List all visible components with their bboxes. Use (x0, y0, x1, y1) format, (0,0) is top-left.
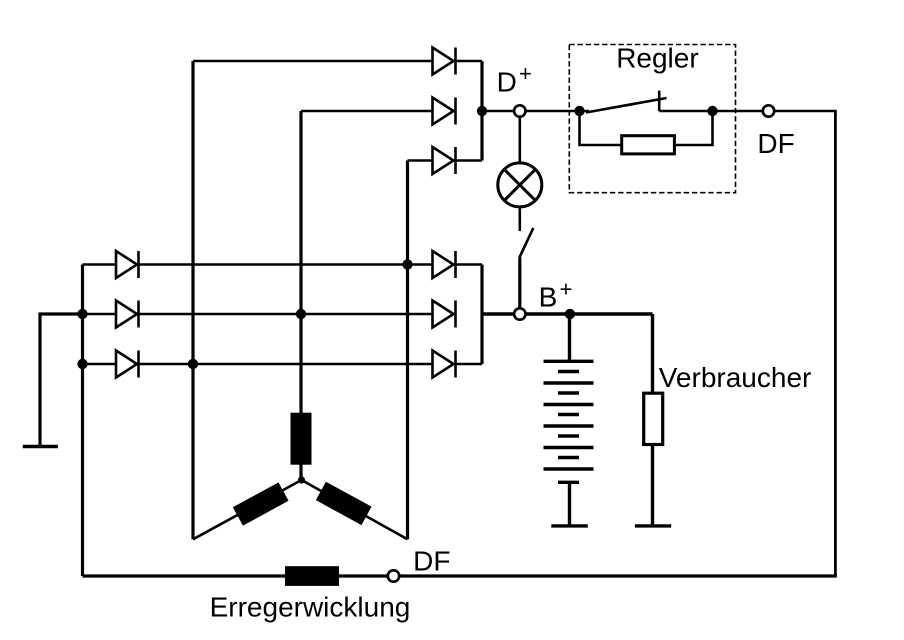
wire row 3 across (139, 363, 433, 366)
wire D3p output (456, 363, 483, 366)
svg-text:Erregerwicklung: Erregerwicklung (210, 592, 411, 623)
svg-text:+: + (519, 61, 532, 86)
wire load branch (651, 314, 654, 393)
node ground rail row 3 junction (77, 359, 87, 369)
wire regulator bypass left (580, 111, 622, 145)
stator winding leg V (299, 414, 302, 481)
regulator box dashed (569, 45, 735, 193)
diode D2p positive middle (433, 301, 456, 328)
wire top row 1 (193, 60, 433, 63)
wire row 1 across (139, 263, 433, 266)
wire D4 output (456, 60, 483, 63)
wire phase W vertical (406, 161, 409, 540)
wire top row 3 (408, 159, 433, 162)
wire ground branch (40, 314, 83, 447)
wire field bottom (83, 574, 837, 577)
battery (544, 314, 594, 526)
node phase W row 1 junction (402, 259, 412, 269)
node phase V row 2 junction (296, 309, 306, 319)
wire switch to B+ (518, 258, 521, 309)
wire lower row 2 (83, 313, 117, 316)
ground battery (551, 524, 588, 527)
diode D5 exciter middle (433, 98, 456, 125)
node regulator right junction (707, 106, 717, 116)
wire D6 output (456, 159, 483, 162)
ground (23, 445, 58, 448)
switch regulator blade (586, 98, 667, 113)
resistor regulator field resistor (622, 136, 675, 154)
switch regulator contact tick (658, 91, 661, 111)
diode D2 negative middle (116, 301, 139, 328)
terminal DF right (763, 105, 774, 116)
diode D6 exciter bottom (433, 147, 456, 174)
wire lower row 3 (83, 363, 117, 366)
lamp charge indicator (498, 163, 542, 207)
node ground rail row 2 junction (77, 309, 87, 319)
node star point (298, 476, 305, 483)
terminal B+ (514, 308, 525, 319)
wire phase U vertical (191, 61, 194, 539)
svg-text:+: + (560, 277, 573, 302)
wire phase V vertical (299, 111, 302, 414)
svg-text:B: B (539, 282, 558, 313)
diode D3 negative bottom (116, 351, 139, 378)
svg-text:DF: DF (757, 128, 794, 159)
wire lamp to switch (518, 207, 521, 231)
ground load (635, 524, 671, 527)
node exciter collector junction (477, 106, 487, 116)
wire top row 2 (301, 110, 433, 113)
diode D1 negative top (116, 251, 139, 278)
node battery tap junction (565, 309, 575, 319)
svg-text:D: D (497, 67, 517, 98)
wire regulator bypass right (674, 111, 712, 145)
wire D1p output (456, 263, 483, 266)
resistor Verbraucher (644, 393, 663, 444)
stator winding leg W (302, 480, 408, 539)
diode D1p positive top (433, 251, 456, 278)
terminal DF bottom (388, 570, 399, 581)
wire exciter collector vertical (480, 61, 483, 161)
wire right border (834, 111, 837, 576)
node regulator left junction (574, 106, 584, 116)
svg-text:Verbraucher: Verbraucher (659, 362, 812, 393)
winding Erregerwicklung (285, 566, 339, 586)
svg-text:DF: DF (413, 546, 450, 577)
wire DF line (659, 110, 837, 113)
stator winding leg U (193, 480, 302, 539)
ground rail left vertical (81, 265, 84, 577)
wire lower row 1 (83, 263, 117, 266)
node phase U row 3 junction (188, 359, 198, 369)
wire D+ to lamp (518, 118, 521, 163)
switch ignition blade (519, 228, 533, 258)
wire B+ collector vertical (480, 265, 483, 365)
diode D3p positive bottom (433, 351, 456, 378)
wire load to ground (651, 445, 654, 526)
svg-text:Regler: Regler (616, 43, 698, 74)
wire B+ line (482, 312, 653, 315)
terminal D+ (514, 105, 525, 116)
wire row 2 across (139, 313, 433, 316)
diode D4 exciter top (433, 48, 456, 75)
wire D+ line (482, 110, 589, 113)
